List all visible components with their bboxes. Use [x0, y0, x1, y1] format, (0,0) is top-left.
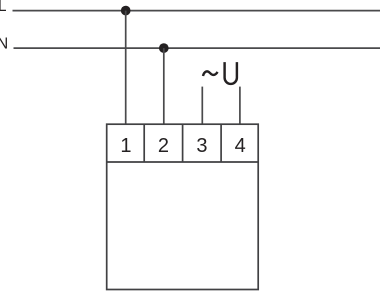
label ~U output voltage: letter U: [225, 62, 237, 84]
svg-text:4: 4: [235, 135, 246, 157]
svg-text:2: 2: [158, 135, 169, 157]
wire stub terminal 3: [201, 87, 203, 125]
wire from N junction to terminal 2: [163, 48, 165, 124]
svg-text:L: L: [0, 0, 7, 15]
terminal divider 2|3: [182, 124, 184, 162]
terminal divider 3|4: [220, 124, 222, 162]
wire from L junction to terminal 1: [125, 11, 127, 125]
junction dot on L bus: [121, 6, 131, 16]
wire N bus: [14, 47, 380, 49]
relay module body outline: [107, 124, 259, 289]
junction dot on N bus: [159, 43, 169, 53]
svg-text:N: N: [0, 35, 8, 52]
wire stub terminal 4: [239, 87, 241, 125]
terminal strip bottom line: [107, 161, 259, 163]
wire L bus: [13, 10, 380, 12]
label ~U output voltage: tilde: [203, 71, 218, 76]
svg-text:3: 3: [196, 135, 207, 157]
svg-text:1: 1: [120, 135, 131, 157]
terminal divider 1|2: [143, 124, 145, 162]
